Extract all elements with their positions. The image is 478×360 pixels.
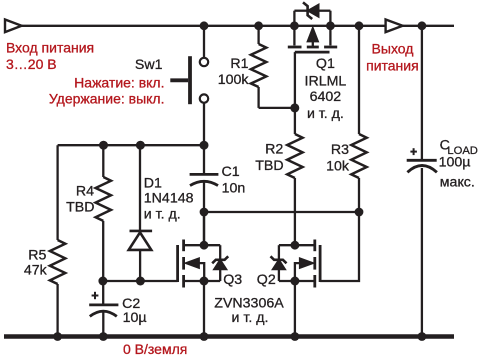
switch contact bottom — [200, 94, 208, 102]
svg-text:6402: 6402 — [310, 89, 342, 105]
svg-text:0 В/земля: 0 В/земля — [123, 341, 187, 357]
wire R3 node down to Q2 gate — [320, 212, 359, 281]
node top rail / R1 — [254, 21, 263, 30]
wire Q2 source lead — [279, 280, 315, 282]
Q2 gate bar — [319, 245, 322, 282]
node middle wire / R3 — [355, 208, 364, 217]
svg-text:R2: R2 — [265, 142, 283, 158]
svg-text:Нажатие: вкл.: Нажатие: вкл. — [74, 74, 164, 90]
node Q2 drain / R2 — [291, 241, 300, 250]
Q2 channel bars — [313, 240, 316, 252]
Q1 gate bar — [295, 51, 330, 54]
capacitor C1 — [190, 174, 219, 212]
wire Q1 gate lead — [294, 52, 296, 108]
svg-text:Q1: Q1 — [316, 56, 335, 72]
svg-text:Sw1: Sw1 — [135, 57, 163, 73]
Q1 substrate arrow — [307, 28, 318, 42]
wire Q3 drain lead — [184, 244, 221, 246]
C2 plus sign — [92, 295, 99, 297]
svg-text:47k: 47k — [24, 263, 48, 279]
switch Sw1 — [170, 26, 208, 173]
svg-text:R4: R4 — [76, 183, 94, 199]
node Q3 gate wire / D1 — [136, 277, 145, 286]
wire Q3 source lead — [184, 280, 221, 282]
resistor R5 — [50, 240, 65, 337]
node left rail / switch bottom — [200, 141, 209, 150]
output arrow — [386, 20, 403, 33]
svg-text:Вход питания: Вход питания — [6, 40, 94, 56]
svg-text:R5: R5 — [28, 248, 46, 264]
node top rail / R3 — [355, 21, 364, 30]
svg-text:C1: C1 — [222, 164, 240, 180]
transistor Q2 (N-MOSFET) — [271, 240, 321, 288]
node ground / CLOAD — [418, 332, 427, 341]
node ground / C2 — [99, 332, 108, 341]
wire Q2 source to ground — [294, 281, 296, 337]
svg-text:TBD: TBD — [66, 200, 94, 216]
diode D-Q3 body diode — [219, 245, 221, 281]
wire R5 top lead — [56, 145, 58, 240]
input arrow — [5, 20, 22, 33]
svg-text:Выход: Выход — [372, 41, 414, 57]
wire C1 node down to Q3 drain — [203, 212, 205, 245]
node left rail / R4 — [99, 141, 108, 150]
Q3 substrate arrow — [185, 258, 199, 268]
wire switch bottom lead — [203, 103, 205, 173]
diode D-Q2 body diode — [278, 245, 280, 281]
capacitor CLOAD — [407, 26, 437, 337]
transistor Q1 (P-MOSFET) — [288, 26, 337, 108]
node middle wire / C1 — [200, 208, 209, 217]
diode D-Q1 body diode loop — [294, 2, 330, 25]
svg-text:и т. д.: и т. д. — [307, 106, 344, 122]
svg-text:100µ: 100µ — [439, 154, 471, 170]
node ground / R5 — [53, 332, 62, 341]
wire Q3 drain up to middle node — [203, 212, 205, 245]
svg-text:1N4148: 1N4148 — [144, 191, 194, 207]
node Q3 source — [200, 277, 209, 286]
node top rail / CLOAD — [418, 21, 427, 30]
svg-text:питания: питания — [366, 58, 419, 74]
svg-text:10µ: 10µ — [123, 310, 147, 326]
svg-text:IRLML: IRLML — [305, 73, 347, 89]
resistor R3 — [351, 26, 366, 212]
wire Q1 drain stub — [329, 26, 331, 46]
resistor R4 — [96, 145, 111, 281]
svg-text:и т. д.: и т. д. — [232, 310, 269, 326]
node top rail / Q1 source — [290, 21, 299, 30]
svg-text:R3: R3 — [331, 142, 349, 158]
node Q2 source — [290, 277, 299, 286]
wire ground rail — [4, 334, 454, 339]
resistor R1 — [251, 26, 266, 108]
switch plunger bar — [188, 56, 192, 104]
Q3 channel bars — [182, 240, 185, 252]
capacitor C2 — [89, 281, 118, 337]
svg-text:макс.: макс. — [440, 174, 475, 190]
svg-text:Q3: Q3 — [223, 272, 242, 288]
wire R1 bottom to Q1 gate node — [259, 107, 295, 109]
node left rail / D1 — [136, 141, 145, 150]
svg-text:Удержание: выкл.: Удержание: выкл. — [49, 90, 165, 106]
resistor R2 — [287, 108, 302, 245]
transistor Q3 (N-MOSFET) — [178, 240, 229, 288]
svg-text:и т. д.: и т. д. — [144, 206, 181, 222]
CLOAD plus sign — [410, 151, 417, 153]
node ground / Q3 — [200, 332, 209, 341]
node Q1 gate / R1 / R2 — [290, 103, 299, 112]
node ground / Q2 — [291, 332, 300, 341]
node top rail / switch — [200, 21, 209, 30]
wire Q1 source stub — [293, 26, 295, 46]
svg-text:ZVN3306A: ZVN3306A — [214, 295, 284, 311]
svg-text:10k: 10k — [326, 159, 350, 175]
svg-text:TBD: TBD — [255, 158, 283, 174]
wire middle node (C1 bottom to R3 bottom) — [204, 211, 359, 213]
Q1 channel bars — [288, 46, 302, 49]
svg-text:10n: 10n — [222, 181, 246, 197]
wire Q2 drain lead — [279, 244, 315, 246]
diode D1 — [129, 145, 152, 281]
svg-text:3…20 В: 3…20 В — [6, 56, 57, 72]
wire left node rail — [58, 144, 204, 146]
Q2 substrate arrow — [300, 258, 314, 268]
svg-text:R1: R1 — [230, 56, 248, 72]
switch actuator bar — [170, 78, 188, 82]
wire Q3 gate node (C2/D1 to gate) — [103, 280, 177, 282]
wire switch top lead — [203, 26, 205, 58]
svg-text:100k: 100k — [218, 72, 250, 88]
wire top rail — [21, 25, 454, 27]
node Q3 gate wire / C2 — [98, 277, 107, 286]
svg-text:D1: D1 — [144, 176, 162, 192]
Q3 gate bar — [176, 245, 179, 282]
node top rail / Q1 drain — [326, 21, 335, 30]
switch contact top — [200, 58, 208, 66]
wire Q3 source to ground — [203, 281, 205, 337]
node Q3 drain — [200, 241, 209, 250]
svg-text:Q2: Q2 — [257, 272, 276, 288]
